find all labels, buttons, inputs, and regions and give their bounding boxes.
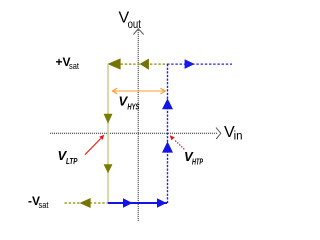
svg-text:LTP: LTP [66, 157, 78, 166]
arrowhead olive left (bottom line) [80, 198, 91, 208]
svg-text:HYS: HYS [127, 102, 139, 111]
arrowhead olive down (lower) [104, 164, 113, 173]
wire: blue vertical HTP transition line [167, 64, 169, 203]
wire: bottom -Vsat olive dashed segment [65, 202, 109, 204]
wire: top +Vsat blue dashed segment [167, 63, 232, 65]
svg-text:out: out [128, 19, 142, 31]
arrowhead blue up (upper) [162, 98, 173, 109]
arrowhead blue right (top line) [185, 59, 195, 69]
red pointer arrow to LTP [85, 135, 104, 155]
wire: bottom -Vsat blue solid segment [108, 202, 167, 204]
arrowhead olive down (upper) [104, 114, 113, 124]
svg-text:in: in [234, 131, 243, 143]
Vhys double-headed orange arrow [113, 88, 166, 94]
red pointer arrow to HTP [170, 135, 185, 149]
svg-text:sat: sat [69, 61, 79, 71]
arrowhead blue right (bottom line, mid) [123, 198, 133, 208]
wire: top +Vsat olive dashed segment [108, 63, 167, 65]
arrowhead blue right (bottom line, at HTP corner) [157, 198, 167, 208]
wire: olive vertical LTP transition line [107, 64, 109, 203]
svg-text:HTP: HTP [192, 157, 203, 166]
arrowhead blue up (lower) [162, 141, 173, 152]
horizontal axis Vin [50, 128, 221, 139]
arrowhead olive left (top line, mid) [140, 59, 149, 70]
arrowhead olive left (top line, at LTP corner) [107, 58, 120, 69]
svg-text:sat: sat [39, 200, 49, 210]
vertical axis Vout [133, 29, 143, 221]
